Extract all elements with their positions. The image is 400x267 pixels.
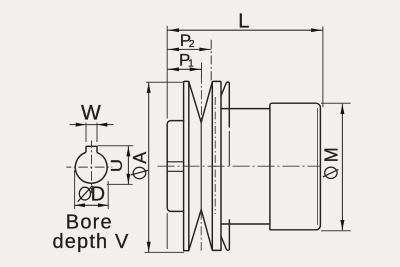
main axis centerline [158, 165, 322, 167]
W right arrow (pointing left) [97, 123, 107, 127]
L left extension line upper [166, 26, 168, 119]
phiD left arrow (pointing left) [75, 203, 85, 207]
left boss (hub on left face) [167, 121, 183, 212]
groove centerline below vertex [200, 211, 202, 251]
phiM bottom extension line [321, 230, 351, 232]
phiD right arrow (pointing right) [98, 203, 108, 207]
W right extension line [96, 123, 98, 142]
phiD right extension line [107, 181, 109, 209]
L right extension line [322, 27, 324, 108]
svg-text:A: A [130, 152, 150, 164]
svg-text:1: 1 [188, 58, 194, 70]
P1 right arrow [190, 67, 201, 71]
phantom 2nd-groove flange bottom [221, 220, 230, 250]
phiA bottom extension line [145, 251, 185, 253]
svg-text:M: M [322, 147, 342, 162]
pilot bore upper line in boss [167, 161, 183, 163]
phiA bottom arrow [147, 242, 151, 252]
P1 right extension line [201, 62, 203, 79]
P1 dimension line [167, 68, 201, 70]
svg-text:depth V: depth V [53, 231, 130, 253]
P1 left arrow [168, 67, 179, 71]
V-groove top [189, 82, 213, 123]
U bottom arrow [126, 174, 130, 184]
W dimension line [70, 124, 114, 126]
phiD left extension line [74, 170, 76, 209]
front view horizontal centerline [66, 166, 112, 168]
svg-text:D: D [91, 183, 105, 205]
P2 right extension line (dash-dot) [210, 40, 212, 81]
P2 dimension line [167, 48, 211, 50]
second groove centerline inside flange 2 [214, 97, 216, 214]
phiM top arrow [340, 104, 344, 114]
hub (right cylinder) [270, 103, 321, 230]
phiA top extension line [146, 81, 183, 83]
neck top line [221, 108, 270, 110]
svg-text:W: W [81, 101, 101, 124]
L left arrow [168, 28, 179, 32]
groove centerline above pulley [200, 75, 202, 122]
label U (rotated) [108, 159, 126, 172]
L right arrow [311, 28, 322, 32]
phiD dimension line [75, 204, 109, 206]
bore circle with keyway [75, 152, 107, 183]
groove bottom edge (between vertices) [200, 122, 202, 209]
U dimension line [127, 146, 129, 184]
keyway slot [86, 146, 97, 152]
P2 right arrow [199, 48, 210, 52]
flange 2 (right disc) [212, 81, 221, 250]
U bottom extension line [107, 183, 133, 185]
phiM bottom arrow [340, 220, 344, 230]
pilot bore lower line in boss [167, 170, 183, 172]
V-groove bottom [189, 210, 213, 251]
phantom 2nd-groove flange top lower segment [228, 132, 230, 166]
U top extension line [98, 145, 134, 147]
svg-text:U: U [108, 159, 126, 172]
phiA top arrow [147, 83, 151, 93]
L left extension line lower [166, 213, 168, 249]
svg-text:L: L [238, 11, 249, 33]
U top arrow [126, 146, 130, 156]
P2 left arrow [168, 48, 179, 52]
svg-text:2: 2 [189, 38, 195, 50]
label phiM (rotated) [322, 147, 342, 178]
flange 1 (left disc) [184, 81, 189, 250]
front view vertical centerline [91, 140, 93, 193]
L dimension line [167, 29, 323, 31]
W left arrow (pointing right) [76, 123, 86, 127]
hub right face inner edge line [317, 109, 319, 225]
neck bottom line [221, 223, 270, 225]
W left extension line [85, 123, 87, 142]
phiM dimension line [341, 104, 343, 231]
label phiD [78, 183, 105, 205]
label phiA (rotated) [130, 152, 150, 179]
phiA dimension line [148, 83, 150, 252]
phantom 2nd-groove flange top [221, 82, 229, 127]
phiM top extension line [321, 102, 351, 104]
